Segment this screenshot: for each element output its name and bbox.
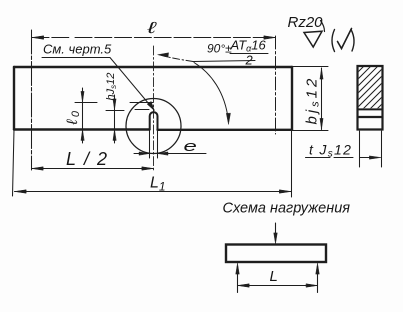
dimension h extension ticks [106,110,149,111]
side view slot tip lines [358,108,383,110]
left support axis line [31,30,33,170]
90 degree fraction bar [230,53,268,55]
dimension l0 extension ticks [75,102,153,104]
dimension L1 line [15,191,292,193]
svg-text:L: L [270,268,278,285]
slot centerline [153,46,155,172]
svg-text:e: e [184,138,197,154]
90 degree leader arc to surface [194,63,228,121]
side view hatching [352,58,388,115]
dimension e lines and arrows [134,153,206,155]
label t Js12 underline [306,157,354,159]
roughness triangle symbol [304,31,322,47]
svg-text:ℓ: ℓ [146,19,157,37]
slot (notch) [150,112,158,130]
dimension l line [32,37,276,39]
svg-text:См. черт.5: См. черт.5 [43,42,112,57]
loading scheme dimension L line [238,285,318,287]
roughness Rz20 tail [321,21,325,32]
bar right edge extension below [291,130,293,197]
svg-text:Схема нагружения: Схема нагружения [223,201,351,217]
loading scheme force arrow [275,223,277,240]
dimension l0 line and arrows [82,88,84,130]
loading scheme bar [226,245,326,263]
dimension L/2 line [32,168,154,170]
dimension b line and arrows [321,68,323,130]
90 degree label shelf [193,61,255,62]
side view outline [358,66,383,130]
dimension t line and arrow [360,157,379,159]
right support axis line [275,36,277,134]
specimen bar outline [14,66,292,68]
svg-text:90°±: 90°± [207,42,232,56]
svg-text:Rz20: Rz20 [288,14,324,31]
loading scheme left support arrow [237,266,239,293]
svg-text:L/2: L/2 [66,149,115,169]
detail circle [126,99,181,154]
dimension h line and arrows [114,95,116,130]
bar left edge extension below [13,130,15,197]
bar edge extensions for b dimension [292,67,328,131]
slot edge extension lines [150,130,158,159]
check mark in parentheses [332,30,335,52]
side view extension lines for t [360,131,382,167]
loading scheme right support arrow [317,266,319,293]
label See drawing 5 leader [42,58,154,111]
svg-text:2: 2 [245,53,254,68]
90 degree leader to notch centerline [161,55,193,62]
